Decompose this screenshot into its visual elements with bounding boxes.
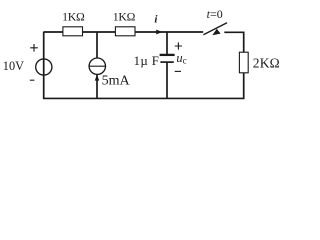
current arrow i on top wire xyxy=(156,30,162,35)
svg-text:uc: uc xyxy=(176,51,186,66)
svg-text:1KΩ: 1KΩ xyxy=(62,9,85,23)
voltage source V1 circle xyxy=(36,59,52,75)
wire: left vertical (through voltage source) xyxy=(43,32,45,99)
switch closing-direction arrow xyxy=(212,29,220,36)
label + (voltage source polarity) xyxy=(30,44,38,52)
wire: bottom rail xyxy=(43,97,245,99)
resistor R1 xyxy=(63,27,83,36)
capacitor C top plate xyxy=(160,54,175,56)
label − (capacitor polarity) xyxy=(175,70,181,72)
svg-text:10V: 10V xyxy=(3,59,24,73)
resistor R2 xyxy=(115,27,135,36)
switch S blade xyxy=(203,23,227,35)
wire: current source branch upper stub xyxy=(96,32,98,59)
svg-text:1KΩ: 1KΩ xyxy=(113,9,136,23)
wire: R1 to R2 (junction node at x=97) xyxy=(83,31,116,33)
svg-text:2KΩ: 2KΩ xyxy=(253,56,280,71)
svg-text:t=0: t=0 xyxy=(207,7,223,21)
wire: capacitor branch lower stub xyxy=(166,63,168,99)
wire: R2 to switch left contact (junction node at x=167) xyxy=(135,31,203,33)
current source direction arrow (up) xyxy=(95,74,99,80)
svg-text:5mA: 5mA xyxy=(102,74,131,89)
wire: top-left horizontal from corner to R1 xyxy=(44,31,63,33)
current source I1 circle xyxy=(89,58,105,74)
wire: right vertical lower (R3 to bottom corner) xyxy=(243,73,245,99)
capacitor C bottom plate xyxy=(160,61,173,63)
wire: switch right contact to top-right corner xyxy=(224,31,244,33)
label + (capacitor polarity) xyxy=(175,42,182,49)
wire: capacitor branch upper stub xyxy=(166,32,168,55)
resistor R3 xyxy=(239,52,248,73)
wire: current source branch lower stub xyxy=(96,75,98,99)
label − (voltage source polarity) xyxy=(30,79,35,81)
wire: right vertical upper (corner to R3) xyxy=(243,32,245,53)
svg-text:i: i xyxy=(154,13,158,25)
current source I1 crossbar xyxy=(89,65,105,67)
svg-text:1µ F: 1µ F xyxy=(134,54,160,68)
